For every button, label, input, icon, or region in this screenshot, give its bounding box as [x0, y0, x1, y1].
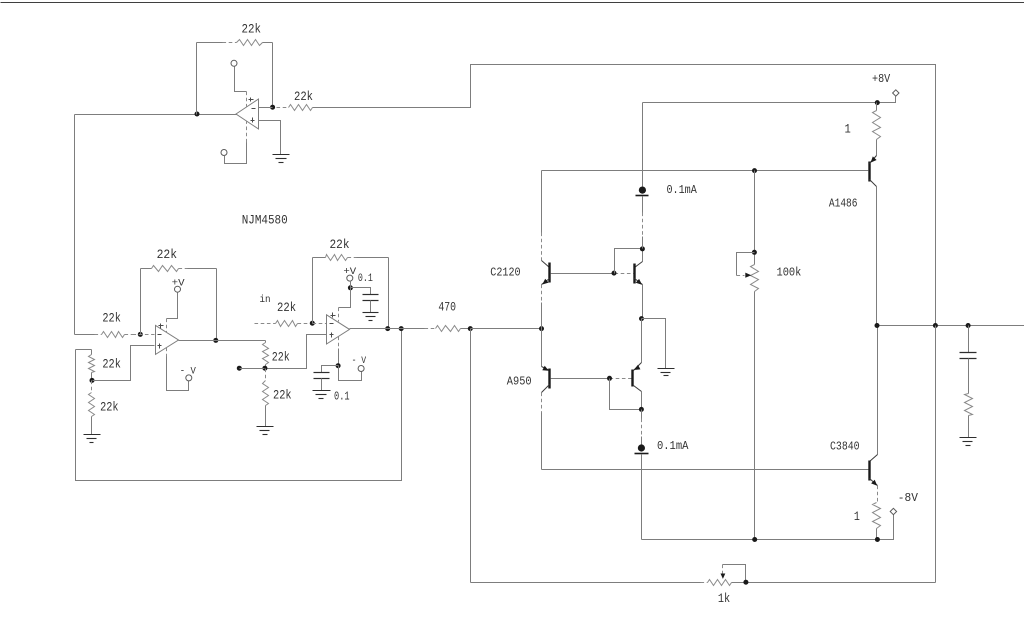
wire: U1A -V lead [167, 348, 189, 391]
resistor 22k (divider upper) [76, 350, 122, 381]
wire: +8V rail [643, 97, 896, 103]
wire: 470 to VAS input [471, 328, 542, 330]
wire: U1B feedback right riser [388, 258, 390, 329]
transistor Q6 C3840 (NPN lower output) [870, 326, 878, 503]
label: 0.1 (V- bypass cap) [334, 391, 350, 404]
node: mirror base junction [612, 271, 617, 276]
node: V+ bypass junction [348, 285, 353, 290]
label: 0.1mA (top) [667, 183, 698, 197]
node: V- bypass junction [336, 363, 341, 368]
wire: to U1B -V terminal [339, 366, 362, 381]
svg-text:- V: - V [180, 366, 197, 378]
svg-text:0.1mA: 0.1mA [657, 439, 689, 453]
IC label NJM4580 [242, 213, 288, 228]
svg-text:in: in [260, 294, 271, 306]
current source 0.1mA (top) [636, 103, 649, 249]
capacitor (output network) [960, 326, 977, 394]
wire: U1A +V lead [167, 293, 178, 333]
svg-text:1: 1 [854, 509, 860, 524]
node: A950 base junction [607, 376, 612, 381]
resistor 22k (U1B +in to ground) [263, 369, 292, 427]
svg-text:22k: 22k [272, 350, 290, 365]
label: 0.1 (V+ bypass cap) [358, 273, 373, 285]
node: U1A inverting input [138, 332, 143, 337]
ground (U1B +input network) [257, 427, 274, 435]
transistor Q4 A950 (diode connected) [633, 319, 642, 410]
wire: stub [240, 368, 265, 370]
wire: U1B +V lead [339, 281, 351, 322]
node: Q2 collector junction [640, 246, 645, 251]
svg-text:22k: 22k [102, 357, 121, 372]
wire: feedback left riser [196, 43, 198, 115]
terminal: U1C V+ pin [231, 60, 237, 66]
ground (V- bypass) [313, 391, 331, 399]
wire: Q4 base-collector tie [610, 379, 642, 410]
svg-text:0.1mA: 0.1mA [667, 183, 698, 197]
capacitor 0.1 (V+ bypass) [351, 288, 379, 313]
wire: A950 base link [551, 378, 632, 380]
svg-text:0.1: 0.1 [334, 391, 350, 404]
wire: divider tap to U1A non-inverting input [93, 346, 155, 381]
wire: U1A output [179, 340, 266, 342]
wire: bottom rail left [471, 582, 701, 584]
label: C3840 [830, 440, 860, 454]
svg-text:22k: 22k [102, 310, 121, 325]
resistor 22k (U1A out to U1B +in) [263, 343, 290, 369]
node: U1C output feedback tap [195, 112, 200, 117]
node: VAS input node [539, 326, 544, 331]
svg-text:22k: 22k [157, 247, 178, 262]
node: +8V / R emitter junction [875, 100, 880, 105]
svg-text:22k: 22k [330, 237, 350, 252]
wire: negative bias rail [642, 515, 894, 540]
svg-text:22k: 22k [277, 300, 296, 315]
node: U1B +input network node [262, 366, 267, 371]
wire: U1A feedback right riser [216, 269, 218, 341]
svg-text:A1486: A1486 [829, 197, 858, 211]
node: 100k bottom junction [752, 537, 757, 542]
resistor 22k (series feedback net) [277, 89, 319, 111]
wire: bias midpoint to ground [642, 319, 666, 369]
terminal: U1B -V pin [352, 355, 367, 372]
node: output rail feedback tap [933, 323, 938, 328]
wire: feedback right riser [272, 43, 274, 108]
transistor Q2 C2120 (diode connected) [635, 249, 643, 319]
terminal: -8V [890, 491, 918, 515]
resistor 22k (divider lower) [89, 381, 119, 435]
wire: 470 junction riser to bottom rail [470, 329, 472, 583]
svg-text:- V: - V [352, 355, 367, 367]
svg-text:+V: +V [343, 266, 357, 278]
terminal: U1B +V pin [343, 266, 357, 281]
wire: Q2 base-collector tie [615, 249, 643, 274]
wire: feedback net run to output rail [319, 65, 936, 326]
wire: U1C non-inverting input to ground [259, 121, 281, 155]
node: bias midpoint [639, 316, 644, 321]
label: 1k [718, 591, 730, 606]
node: output rail collectors [875, 323, 880, 328]
potentiometer 1k wiper [721, 565, 746, 582]
potentiometer 1k body [701, 580, 936, 586]
label: 0.1mA (bottom) [657, 439, 689, 453]
node: U1C inverting input [270, 105, 275, 110]
node: 100k wiper tie [752, 250, 757, 255]
node: divider midpoint [90, 378, 95, 383]
terminal: U1A -V pin [180, 366, 197, 381]
op-amp U1A (points right) [156, 324, 179, 355]
potentiometer 100k wiper [737, 253, 755, 278]
svg-text:0.1: 0.1 [358, 273, 373, 285]
svg-text:22k: 22k [100, 400, 119, 415]
svg-text:A950: A950 [507, 374, 532, 388]
wire: U1A inverting stub [133, 334, 155, 336]
resistor 22k (U1B input) [255, 300, 313, 326]
wire: output rail [877, 325, 1024, 327]
label: C2120 [490, 266, 520, 280]
label: A1486 [829, 197, 858, 211]
svg-text:C2120: C2120 [490, 266, 520, 280]
node: output rail zobel tap [966, 323, 971, 328]
wire: mirror base link [551, 273, 634, 275]
transistor Q1 C2120 (mirror input side) [542, 171, 550, 329]
resistor 22k (U1C feedback) [197, 22, 273, 46]
node: 100k top junction [752, 168, 757, 173]
wire: U1C V- pin lead [225, 122, 247, 164]
ground (output network) [960, 438, 977, 446]
node: U1B inverting input [310, 321, 315, 326]
svg-text:22k: 22k [294, 89, 313, 104]
ground (V+ bypass) [363, 313, 379, 321]
svg-text:470: 470 [438, 299, 456, 314]
wire: U1B feedback left riser [312, 258, 314, 324]
wire: feedback column lower [935, 326, 937, 583]
svg-text:100k: 100k [777, 265, 802, 279]
label: in [260, 294, 271, 306]
frame top border line [1, 2, 1024, 4]
label: A950 [507, 374, 532, 388]
resistor 1 (C3840 emitter) [854, 503, 881, 540]
node: 470 output junction [468, 326, 473, 331]
label: 100k [777, 265, 802, 279]
wire: U1C output to left bus [75, 115, 237, 335]
terminal: U1A +V pin [172, 277, 186, 292]
wire: VAS upper line (C2120 collector to A1486 base) [542, 170, 869, 172]
resistor 22k (U1A feedback) [141, 247, 217, 271]
node: Q4 collector junction [639, 407, 644, 412]
svg-text:1k: 1k [718, 591, 730, 606]
current source 0.1mA (bottom) [635, 410, 649, 540]
node: stub terminal [237, 366, 242, 371]
node: U1B output feedback junction [385, 326, 390, 331]
wire: VAS lower line (A950 collector to C3840 base) [542, 469, 869, 471]
wire: U1B output [350, 328, 425, 330]
potentiometer 100k body [751, 171, 759, 540]
terminal: U1C V- pin [221, 150, 227, 156]
wire: U1B non-inverting link [265, 335, 327, 369]
svg-text:C3840: C3840 [830, 440, 860, 454]
node: C3840 emitter node [875, 537, 880, 542]
terminal: +8V [872, 72, 899, 96]
svg-text:1: 1 [845, 122, 851, 137]
resistor (output network) [965, 394, 973, 438]
wire: U1A feedback left riser [140, 269, 142, 335]
svg-text:22k: 22k [242, 22, 262, 37]
op-amp U1B (points right) [327, 313, 350, 345]
svg-text:NJM4580: NJM4580 [242, 213, 288, 228]
capacitor 0.1 (V- bypass) [314, 366, 339, 391]
ground (bias midpoint) [658, 369, 675, 376]
svg-text:22k: 22k [273, 387, 292, 402]
ground (U1C non-inverting input) [273, 155, 290, 163]
transistor Q5 A1486 (PNP upper output) [870, 156, 877, 326]
resistor 1 (A1486 emitter) [845, 103, 881, 156]
resistor 470 (U1B output) [425, 299, 471, 331]
wire: output sense loop (bottom-left rectangle) [76, 329, 402, 481]
resistor 22k (U1B feedback) [313, 237, 389, 261]
svg-text:+V: +V [172, 277, 186, 289]
transistor Q3 A950 (mirror input side) [542, 329, 550, 470]
op-amp U1C (points left) [236, 98, 259, 130]
svg-text:-8V: -8V [898, 491, 919, 505]
wire: U1B inverting stub [313, 323, 327, 325]
node: sense loop output tap [399, 326, 404, 331]
wire: U1C inverting input stub [259, 107, 273, 109]
node: 1k wiper tie [743, 580, 748, 585]
ground (divider) [84, 435, 101, 443]
wire: U1B -V lead [338, 337, 340, 366]
resistor 22k (U1A input) [75, 310, 133, 337]
wire: U1A output corner into 22k [265, 341, 267, 343]
wire: U1C V+ pin lead [235, 67, 247, 107]
node: U1A output junction [213, 338, 218, 343]
svg-text:+8V: +8V [872, 72, 891, 86]
